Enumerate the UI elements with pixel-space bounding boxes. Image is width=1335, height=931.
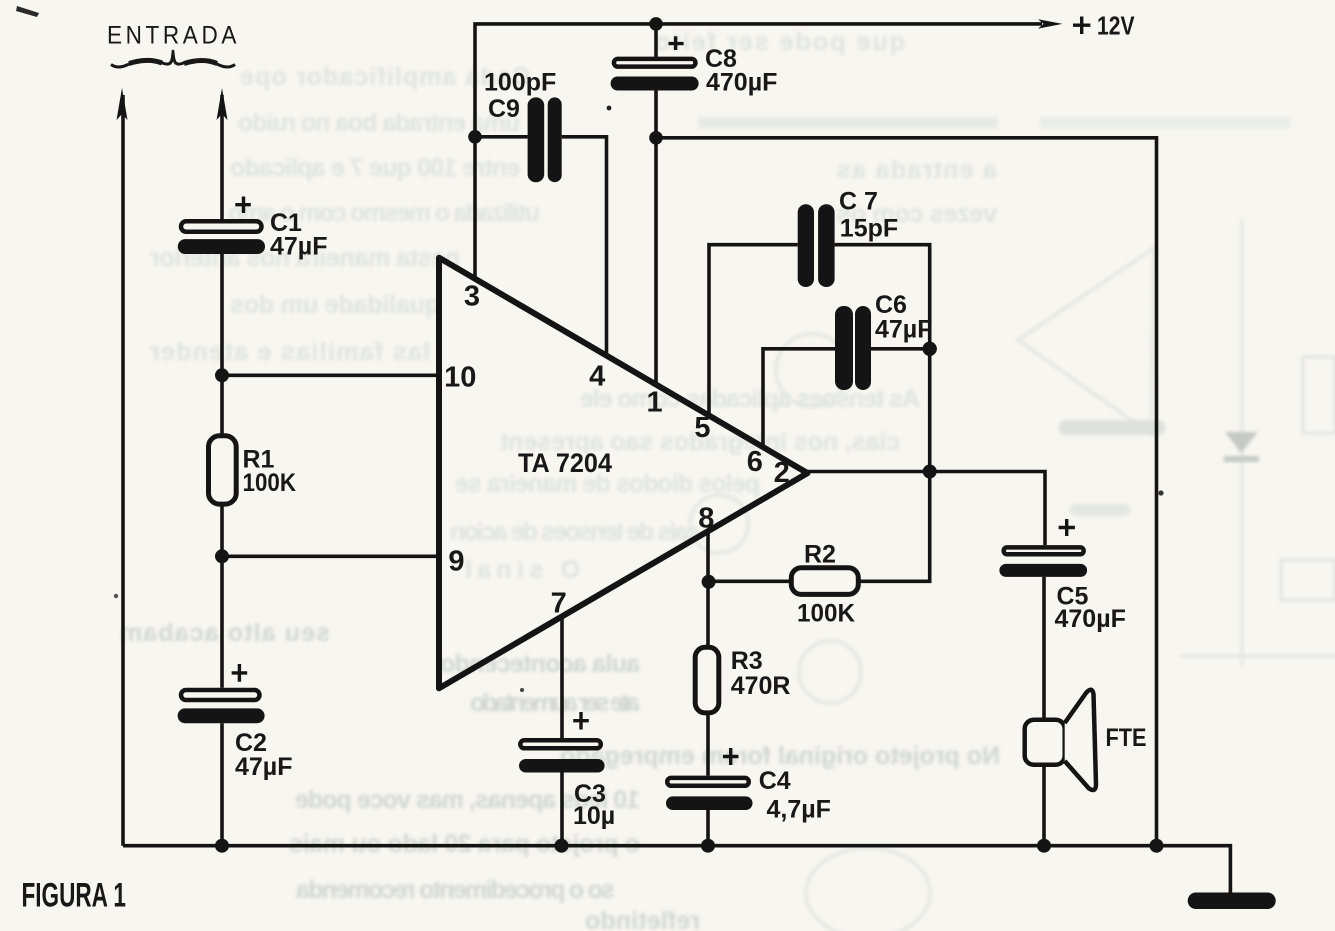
wire pin 7 to C3: [560, 615, 564, 739]
node A junction (C1/R1/pin10): [215, 368, 229, 382]
svg-text:15pF: 15pF: [840, 215, 898, 243]
svg-text:4,7µF: 4,7µF: [767, 796, 831, 824]
node C8 bottom / V+ rail junction: [649, 131, 663, 145]
node top rail / C8 junction: [649, 17, 663, 31]
svg-text:100K: 100K: [243, 469, 297, 497]
wire C3 bottom to ground rail: [560, 773, 564, 846]
capacitor C1: [178, 197, 328, 261]
svg-text:C4: C4: [759, 767, 791, 795]
svg-text:cais de tensoes de acion: cais de tensoes de acion: [450, 518, 700, 546]
node ground rail / C3 junction: [555, 839, 569, 853]
svg-text:TA 7204: TA 7204: [518, 448, 612, 478]
node ground rail / C4 junction: [701, 839, 715, 853]
wire +12V top rail: [475, 24, 1042, 137]
wire ground rail: [123, 846, 1230, 893]
svg-text:refletindo: refletindo: [585, 907, 700, 931]
wire C4 bottom to ground rail: [706, 810, 710, 846]
svg-text:5: 5: [694, 412, 710, 444]
svg-text:las familias e atender: las familias e atender: [150, 338, 430, 366]
svg-text:qualidade um dos: qualidade um dos: [230, 291, 440, 319]
capacitor C4: [666, 748, 831, 824]
svg-text:aula acontecendo: aula acontecendo: [440, 650, 640, 678]
node ground rail / FTE junction: [1037, 839, 1051, 853]
resistor R1: [209, 436, 297, 504]
wire pin 9: [222, 554, 440, 558]
resistor R2: [791, 541, 858, 628]
capacitor C6 47uF: [835, 291, 932, 390]
arrowhead input left: [117, 88, 128, 120]
node C9/pin3 junction: [468, 130, 482, 144]
svg-text:FIGURA 1: FIGURA 1: [22, 877, 126, 915]
wire C9 right to pin 4: [562, 137, 607, 358]
svg-text:100K: 100K: [797, 600, 855, 628]
arrowhead +12V: [1038, 19, 1063, 28]
op-amp U1 TA7204 triangle: [439, 258, 808, 689]
node ground rail / C2 junction: [215, 839, 229, 853]
speck near C9: [607, 106, 612, 111]
svg-text:6: 6: [747, 446, 763, 478]
svg-text:que pode ser feito: que pode ser feito: [655, 28, 905, 56]
svg-text:470µF: 470µF: [1055, 605, 1126, 633]
wire node B to C2 top: [220, 556, 224, 687]
svg-text:No projeto original foram empr: No projeto original foram empregado: [560, 742, 1000, 770]
svg-text:4: 4: [589, 360, 605, 392]
wire input ground line (left arrow): [121, 95, 125, 846]
wire C7 left to pin 5: [709, 245, 798, 417]
node ground rail / right border junction: [1150, 839, 1164, 853]
node pin8/R2 junction: [702, 575, 716, 589]
ENTRADA brace: [111, 50, 235, 67]
wire pin 8 to R3: [706, 530, 710, 647]
svg-text:ENTRADA: ENTRADA: [107, 21, 240, 49]
wire C6 right: [871, 347, 930, 351]
wire C6 left to pin 6: [763, 349, 835, 449]
capacitor C7 15pF: [798, 188, 898, 288]
resistor R3: [695, 647, 790, 713]
arrowhead input right: [217, 88, 228, 120]
ground: [1188, 893, 1276, 910]
svg-text:12V: 12V: [1097, 11, 1135, 41]
node B junction (R1/C2/pin9): [215, 549, 229, 563]
wire output from pin 2 apex to C5: [806, 472, 1045, 546]
wire FTE bottom to ground rail: [1042, 765, 1046, 846]
speaker FTE: [1025, 690, 1147, 790]
capacitor C5: [999, 519, 1125, 633]
wire pin 10: [222, 373, 440, 377]
capacitor C3: [519, 712, 615, 830]
wire C8 bottom through node to pin 1: [654, 90, 658, 386]
svg-text:C 7: C 7: [839, 188, 878, 216]
wire R3 bottom to C4: [706, 714, 710, 776]
svg-text:9: 9: [448, 546, 464, 578]
speck left of C2: [114, 594, 118, 598]
capacitor C9 100pF: [484, 69, 562, 183]
capacitor C2: [178, 664, 293, 781]
node C6/C7 right junction: [923, 342, 937, 356]
node output junction on apex wire: [923, 465, 937, 479]
wire input signal line (right arrow): [220, 95, 224, 221]
speck near right border: [1158, 490, 1163, 495]
wire C1 bottom to node A: [220, 253, 224, 376]
svg-text:100pF: 100pF: [484, 69, 556, 97]
svg-text:so o procedimento recomenda: so o procedimento recomenda: [295, 876, 615, 904]
svg-text:R2: R2: [804, 541, 836, 569]
svg-text:1: 1: [647, 387, 663, 419]
svg-text:47µF: 47µF: [235, 753, 292, 781]
svg-text:a entrada as: a entrada as: [837, 156, 997, 184]
svg-text:7: 7: [551, 587, 567, 619]
wire V+ rail to right border down to ground rail: [656, 138, 1157, 846]
wire node A to R1 top: [220, 375, 224, 437]
svg-text:2: 2: [774, 457, 790, 489]
wire R1 bottom to node B: [220, 506, 224, 557]
wire R2 left: [709, 579, 791, 583]
wire C2 bottom to ground rail: [220, 723, 224, 846]
svg-text:47µF: 47µF: [875, 316, 932, 344]
speck top-left: [16, 6, 39, 17]
svg-text:10µ: 10µ: [573, 802, 615, 830]
node +12V label: [1073, 11, 1135, 41]
svg-text:ate ser aumentado: ate ser aumentado: [470, 689, 640, 717]
svg-text:seu alto acabam: seu alto acabam: [120, 619, 330, 647]
svg-text:As tensoes aplicadas como ele: As tensoes aplicadas como ele: [580, 385, 920, 413]
wire C5 bottom to FTE: [1042, 577, 1046, 720]
svg-text:FTE: FTE: [1106, 724, 1147, 752]
svg-text:10: 10: [444, 361, 476, 393]
wire C8 top: [654, 24, 658, 57]
svg-text:8: 8: [698, 503, 714, 535]
svg-text:3: 3: [464, 281, 480, 313]
svg-text:C9: C9: [488, 95, 520, 123]
svg-text:O sinal: O sinal: [465, 556, 580, 584]
wire pin 3: [473, 137, 477, 280]
wire C7 right down to R2 right: [835, 245, 930, 582]
svg-text:47µF: 47µF: [270, 233, 327, 261]
wire C9 left: [475, 135, 528, 139]
capacitor C8: [611, 36, 778, 96]
svg-text:R3: R3: [731, 647, 763, 675]
svg-text:470R: 470R: [731, 672, 791, 700]
svg-text:470µF: 470µF: [706, 69, 777, 97]
